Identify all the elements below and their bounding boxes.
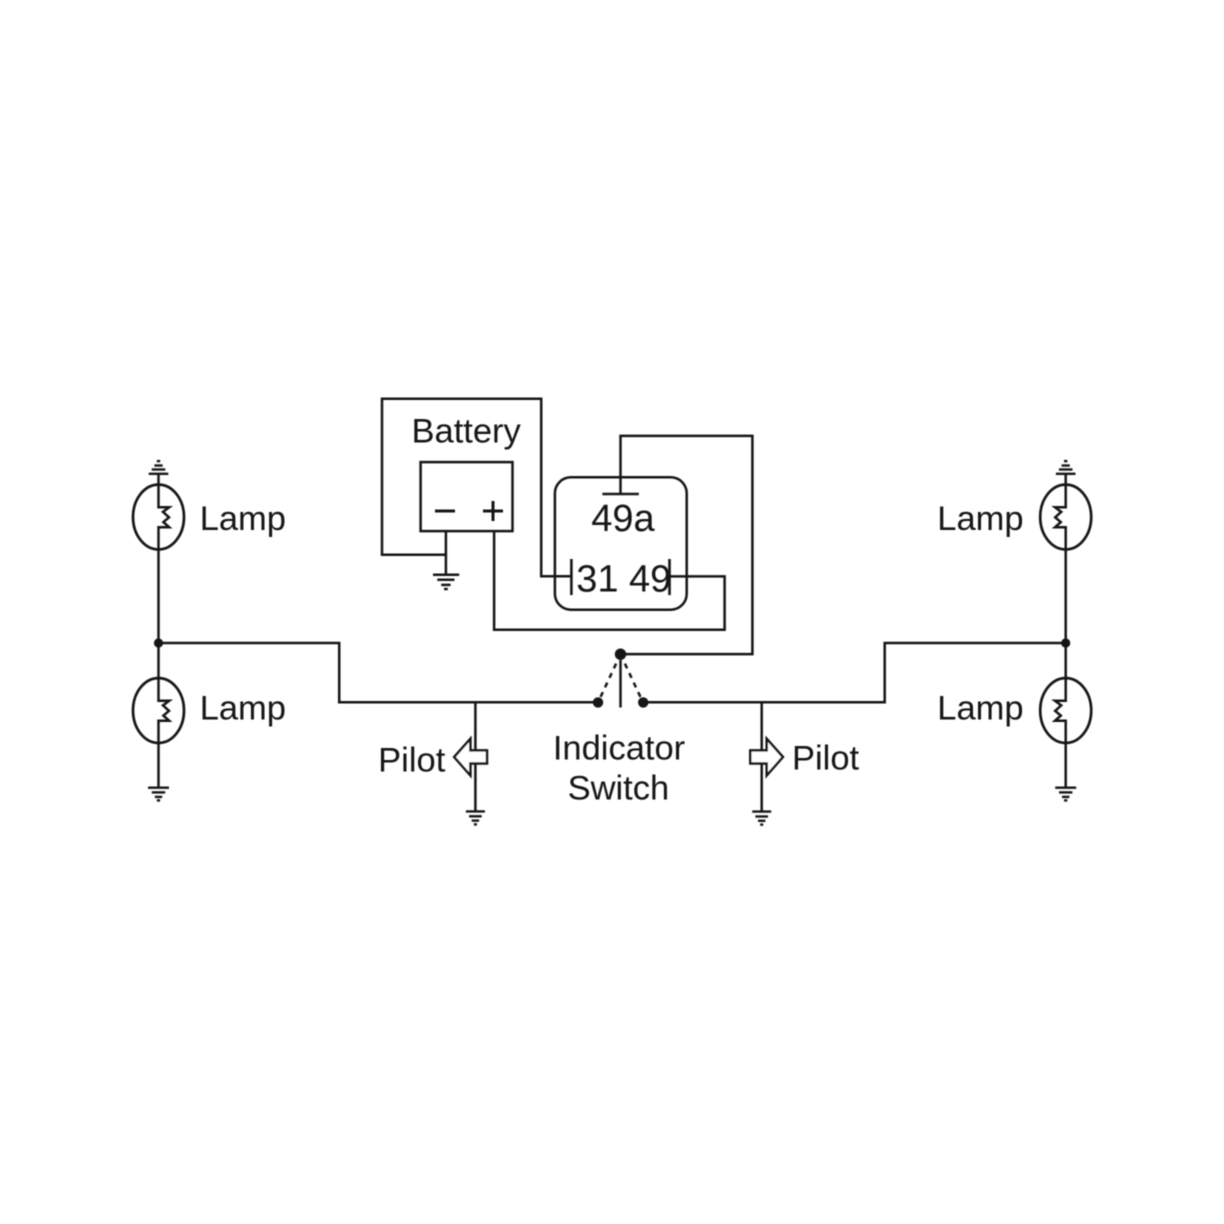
- svg-text:Lamp: Lamp: [937, 500, 1023, 538]
- svg-text:Pilot: Pilot: [378, 741, 446, 779]
- svg-text:49a: 49a: [591, 498, 655, 540]
- svg-text:31 49: 31 49: [576, 559, 671, 601]
- svg-text:Battery: Battery: [412, 413, 522, 451]
- svg-text:Indicator: Indicator: [553, 729, 685, 767]
- svg-text:Pilot: Pilot: [792, 740, 860, 778]
- svg-text:Switch: Switch: [568, 769, 670, 807]
- svg-text:Lamp: Lamp: [937, 690, 1023, 728]
- svg-text:Lamp: Lamp: [200, 500, 286, 538]
- svg-text:Lamp: Lamp: [200, 690, 286, 728]
